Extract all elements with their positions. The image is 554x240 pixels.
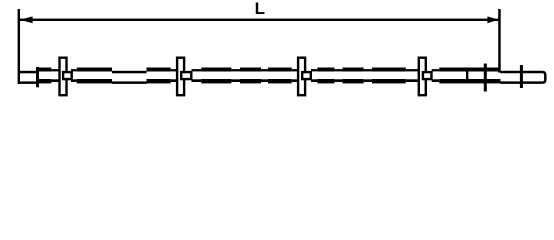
- clip 4 square: [423, 72, 432, 79]
- rod joint notch N1 joint: [231, 69, 240, 82]
- rod thick tube segment K1b: [77, 68, 112, 84]
- rod thin segment T1 (left end): [18, 71, 37, 84]
- right arrowhead: [487, 16, 498, 23]
- clip 3 square: [302, 72, 311, 79]
- left extension line + rod left end cap: [18, 9, 20, 84]
- rod joint notch after clip 4: [432, 69, 440, 82]
- clip 4 bar: [419, 58, 426, 95]
- clip 1 bar: [60, 58, 67, 95]
- joint cap line: [466, 68, 468, 84]
- rod joint notch after clip 3: [311, 69, 317, 82]
- right extension line: [498, 9, 501, 73]
- rod thin segment T6 with rounded right end: [501, 72, 546, 83]
- rod thick tube segment K2b: [201, 68, 231, 84]
- rod joint notch before clip 3: [292, 69, 298, 82]
- rod joint notch before clip 2: [171, 69, 177, 82]
- rod thick tube segment K4b: [372, 68, 406, 84]
- rod thick tube segment K5: [439, 68, 500, 84]
- rod thick tube segment K1a: [37, 68, 51, 84]
- rod joint notch before clip 4: [406, 69, 419, 82]
- rod joint notch after clip 2: [192, 69, 202, 82]
- rod thick tube segment K2a: [147, 68, 171, 84]
- clip 3 bar: [298, 58, 305, 95]
- tick mark 1: [36, 67, 39, 87]
- rod thick tube segment K2c: [240, 68, 261, 84]
- tick mark 2: [484, 64, 487, 92]
- rod joint notch N3 joint: [334, 69, 342, 82]
- rod joint notch N2 joint: [261, 69, 268, 82]
- rod thick tube segment K3b: [317, 68, 334, 84]
- left arrowhead: [20, 16, 33, 23]
- clip 1 square: [63, 72, 72, 79]
- tick mark 3: [520, 65, 523, 88]
- rod joint notch N4 joint: [364, 69, 372, 82]
- rod thin segment T2: [112, 71, 147, 84]
- rod thick tube segment K3a: [268, 68, 292, 84]
- dimension line L: [20, 19, 499, 21]
- rod joint notch before clip 1: [51, 69, 60, 82]
- clip 2 bar: [177, 58, 184, 95]
- rod thick tube segment K4a: [343, 68, 364, 84]
- clip 2 square: [181, 72, 191, 79]
- svg-text:L: L: [255, 0, 265, 18]
- rod joint notch after clip 1: [71, 69, 77, 82]
